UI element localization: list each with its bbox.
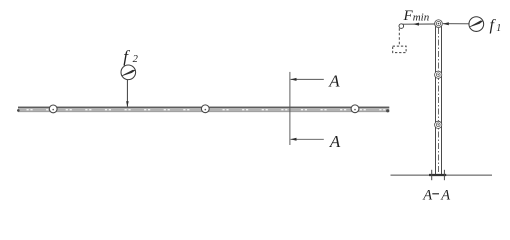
- column right edge: [441, 27, 443, 175]
- dial indicator f2 contact arrow: [126, 101, 129, 107]
- dial indicator f1 contact arrow: [443, 22, 449, 25]
- top pin (pulley pivot) at column top: [435, 20, 443, 28]
- clamp tick right: [443, 170, 445, 180]
- force direction arrowhead Fmin: [413, 23, 419, 26]
- hanging string (dashed): [398, 28, 400, 46]
- label Fmin: [403, 8, 430, 24]
- dial indicator f2 needle: [121, 70, 136, 76]
- weight (dashed rectangle): [393, 46, 406, 53]
- label A-A under column: [422, 187, 450, 203]
- section line A-A vertical: [289, 72, 291, 145]
- column ball pivot 2: [435, 121, 442, 128]
- string from pulley to pin: [402, 23, 435, 25]
- roller ball 2 on beam: [201, 105, 209, 113]
- column foot plate: [429, 174, 446, 176]
- dial indicator f2 dial: [121, 65, 136, 80]
- beam right end dot: [386, 109, 389, 112]
- svg-text:1: 1: [496, 23, 501, 34]
- label f2: [123, 47, 138, 66]
- svg-text:A: A: [440, 187, 450, 203]
- svg-text:min: min: [413, 12, 430, 24]
- pulley: [399, 24, 404, 29]
- svg-text:2: 2: [133, 54, 139, 65]
- section bottom arrowhead: [290, 138, 296, 141]
- ground line: [391, 174, 493, 176]
- dial indicator f2 stem: [126, 80, 128, 107]
- beam left end dot: [17, 109, 20, 112]
- svg-text:A: A: [422, 187, 432, 203]
- roller ball 3 on beam: [351, 105, 359, 113]
- column centerline: [437, 28, 439, 174]
- column left edge (section A-A side view): [435, 27, 437, 175]
- column ball pivot 1: [435, 71, 442, 78]
- svg-text:A: A: [328, 72, 340, 91]
- beam centerline (white dash-dot gaps): [27, 109, 389, 111]
- dial indicator f1 dial: [469, 17, 484, 32]
- roller ball 1 on beam: [49, 105, 57, 113]
- beam (long gauge bar, front view): [18, 107, 389, 112]
- section top arrowhead: [290, 78, 296, 81]
- dial indicator f1 stem: [443, 23, 470, 25]
- svg-text:A: A: [329, 132, 341, 151]
- section top arrow line: [291, 78, 324, 80]
- dial indicator f1 needle: [470, 21, 484, 28]
- section bottom arrow line: [291, 138, 324, 140]
- clamp tick left: [431, 170, 433, 180]
- label f1: [490, 17, 502, 34]
